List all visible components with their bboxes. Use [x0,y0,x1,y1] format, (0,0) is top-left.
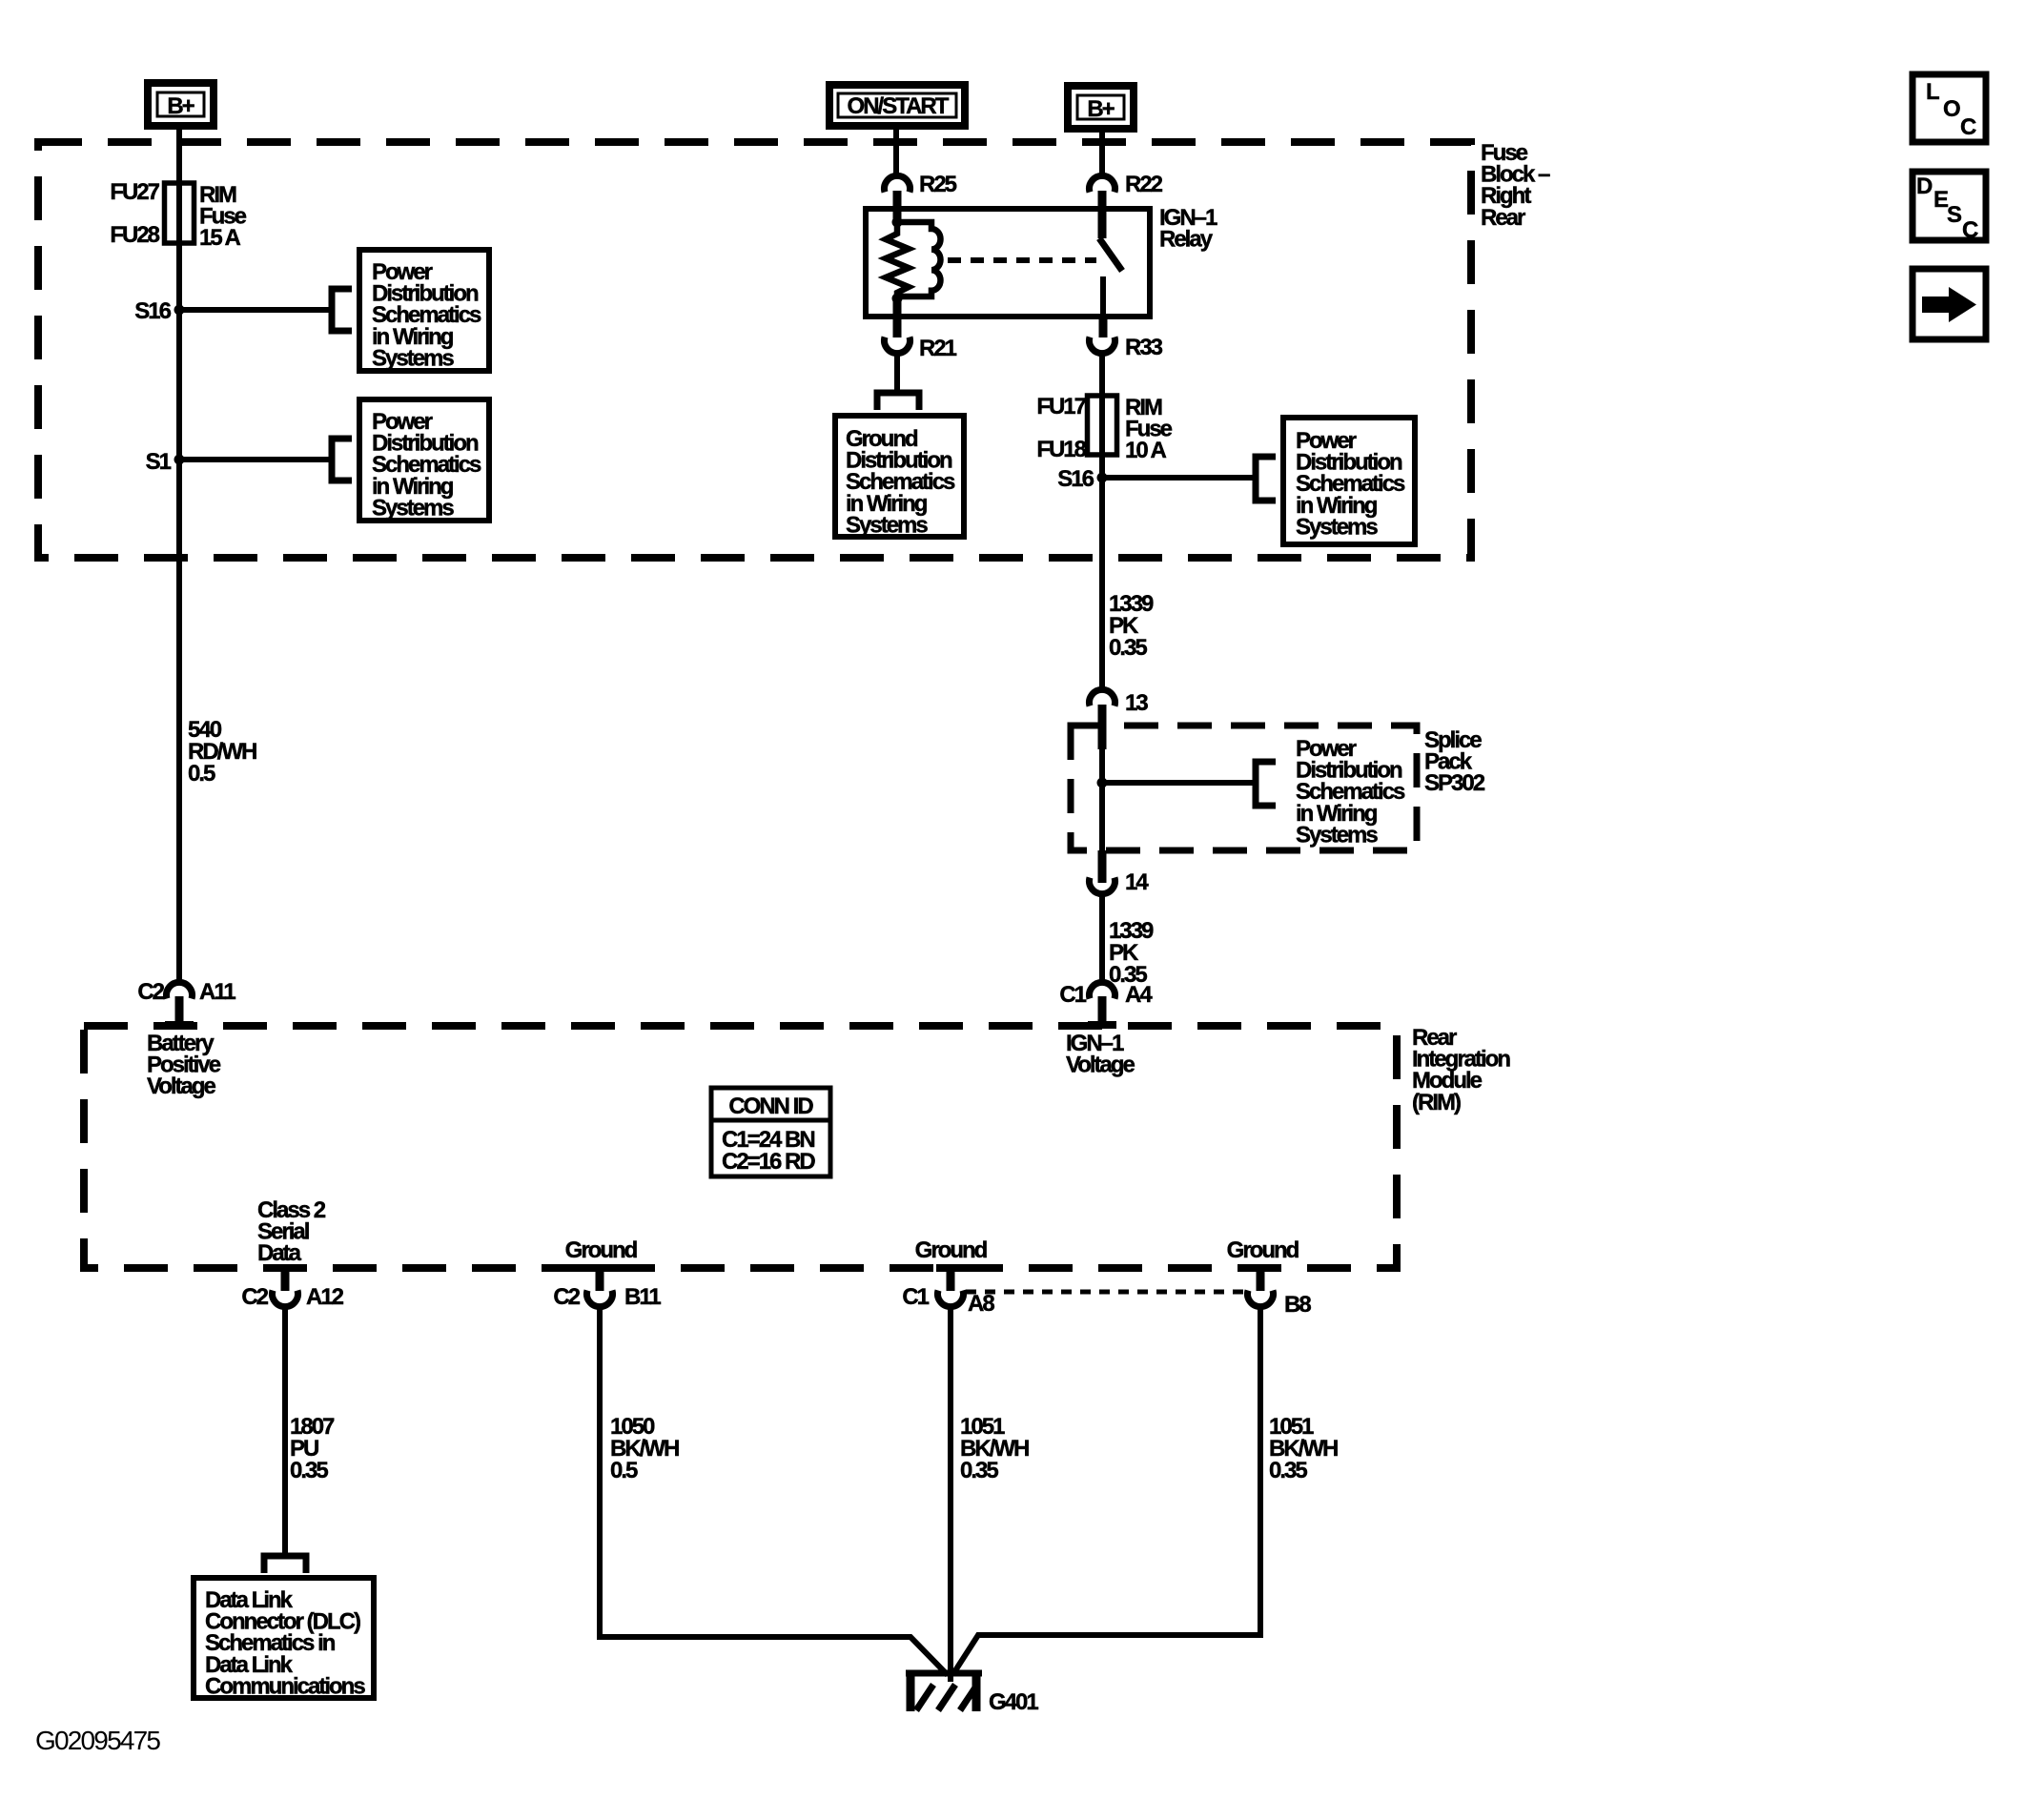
svg-text:0.5: 0.5 [188,761,215,787]
connector C2 B11 (cup) [585,1264,614,1272]
wire ON/START vertical [893,130,899,178]
svg-text:ON/START: ON/START [848,93,950,119]
fuse block Fuse Block - Right Rear (dashed enclosure) [38,142,1471,558]
svg-text:B+: B+ [1087,96,1115,122]
svg-text:0.35: 0.35 [1269,1458,1307,1483]
connector C2 A12 (cup) [271,1264,299,1272]
svg-text:10 A: 10 A [1125,438,1166,463]
svg-text:CONN ID: CONN ID [728,1094,813,1119]
wire 1807 PU 0.35 [282,1306,288,1554]
svg-text:Ground: Ground [1227,1237,1299,1263]
wire S16 right branch [1102,475,1256,481]
svg-text:O: O [1943,96,1960,122]
connector R25 (dome) [885,175,910,192]
icon LOC [1912,74,1986,142]
svg-text:13: 13 [1125,690,1148,716]
bracket to text [1256,762,1276,806]
svg-text:Ground: Ground [565,1237,638,1263]
svg-text:S16: S16 [134,298,171,324]
wire 1050 BK/WH 0.5 [600,1306,948,1675]
wire 1051 BK/WH 0.35 (B8) [952,1306,1260,1675]
svg-text:0.5: 0.5 [610,1458,638,1483]
svg-text:(RIM): (RIM) [1412,1090,1461,1115]
box Power Distribution Schematics in Wiring Systems (S16) [359,250,489,371]
svg-text:0.35: 0.35 [290,1458,328,1483]
wire fuse to 13 [1099,454,1105,691]
connector R21 (cup) [885,337,910,354]
svg-text:Systems: Systems [1296,822,1378,848]
svg-text:Systems: Systems [1296,514,1378,540]
svg-text:Ground: Ground [915,1237,988,1263]
CONN ID table [711,1088,830,1176]
svg-text:FU27: FU27 [110,179,159,205]
connector R33 (cup) [1090,337,1115,354]
ground G401 [906,1670,982,1677]
connector R22 (dome) [1090,175,1115,192]
splice pack SP302 (dashed enclosure) [1071,726,1417,850]
relay IGN-1 box [866,209,1150,317]
fuse FU17/FU18 RIM Fuse 10 A [1088,396,1117,455]
icon DESC [1912,172,1986,240]
box Power Distribution Schematics in Wiring Systems (right) [1283,418,1415,544]
connector B8 (cup) [1246,1264,1275,1272]
svg-text:C1: C1 [902,1284,929,1310]
svg-text:14: 14 [1125,869,1149,895]
svg-text:G02095475: G02095475 [35,1726,160,1755]
wire into splice [1099,749,1105,852]
svg-text:D: D [1916,174,1933,199]
bracket to box [332,289,352,331]
terminal B+ (right) [1068,86,1134,129]
svg-text:FU18: FU18 [1036,437,1086,462]
fuse FU27/FU28 RIM Fuse 15 A [165,183,194,243]
terminal B+ (left) [148,83,214,126]
svg-text:C2: C2 [137,979,164,1005]
svg-text:Voltage: Voltage [147,1074,216,1099]
svg-text:Data: Data [257,1240,302,1266]
connector 13 (dome) [1090,689,1115,706]
bracket to DLC box [264,1556,306,1573]
svg-text:Communications: Communications [205,1673,365,1699]
svg-text:Systems: Systems [372,345,454,371]
bracket to box [332,439,352,481]
svg-text:S1: S1 [146,449,172,475]
svg-text:Relay: Relay [1159,227,1214,253]
svg-text:SP302: SP302 [1424,770,1485,796]
svg-text:Rear: Rear [1481,205,1525,231]
svg-text:C: C [1962,217,1978,243]
svg-text:0.35: 0.35 [960,1458,998,1483]
svg-text:C1: C1 [1059,982,1086,1008]
svg-text:R22: R22 [1125,172,1163,197]
terminal ON/START [829,85,965,126]
coil winding (right bumps) [897,222,941,297]
svg-text:C2=16 RD: C2=16 RD [722,1149,815,1175]
svg-text:C: C [1960,114,1976,140]
bracket to box [1256,457,1276,501]
wire splice branch [1102,780,1256,786]
svg-text:B11: B11 [624,1284,661,1310]
box Power Distribution Schematics in Wiring Systems (S1) [359,399,489,521]
connector C2 A11 (dome) [167,982,193,998]
wire S16 branch [179,307,330,313]
box Data Link Connector (DLC) [194,1578,374,1698]
svg-text:FU28: FU28 [110,222,159,248]
connector C1 A4 (dome) [1090,982,1115,998]
svg-text:A8: A8 [968,1291,994,1317]
pin through relay box bottom [893,301,902,337]
node S16 [174,305,185,316]
wire S1 branch [179,457,330,462]
connector 14 (cup) [1098,850,1107,883]
wire R33 to fuse [1099,353,1105,399]
svg-text:S16: S16 [1057,466,1094,492]
svg-text:B8: B8 [1284,1292,1311,1318]
svg-text:FU17: FU17 [1036,394,1086,419]
svg-text:R25: R25 [919,172,957,197]
node S16 (right) [1097,473,1108,483]
svg-text:0.35: 0.35 [1109,635,1147,661]
wire R21 down [894,353,900,393]
svg-text:A4: A4 [1125,982,1153,1008]
box Ground Distribution Schematics in Wiring Systems [835,416,964,537]
svg-text:Voltage: Voltage [1066,1053,1135,1078]
wire B+ right vertical [1099,133,1105,178]
svg-text:R21: R21 [919,336,957,361]
bracket to ground distribution box [877,393,919,410]
svg-text:C2: C2 [553,1284,580,1310]
wire 540 RD/WH 0.5 vertical [176,240,182,984]
wire B+ left vertical top [176,130,182,187]
svg-text:Systems: Systems [372,495,454,521]
node splice SP302 [1097,778,1108,788]
node coil bottom [892,294,903,304]
relay switch arm [1099,238,1122,271]
svg-text:15 A: 15 A [199,225,240,251]
svg-text:R33: R33 [1125,335,1163,360]
svg-text:S: S [1947,202,1962,228]
svg-text:A12: A12 [306,1284,344,1310]
svg-text:G401: G401 [989,1689,1038,1715]
svg-text:L: L [1926,79,1939,105]
module RIM Rear Integration Module (dashed enclosure) [84,1026,1397,1268]
svg-text:Systems: Systems [846,512,928,538]
wire through fuse [1099,399,1105,454]
svg-text:A11: A11 [199,979,235,1005]
icon arrow [1912,269,1986,339]
wire 1051 BK/WH 0.35 (A8) [948,1306,953,1682]
wire 14 down [1099,893,1105,984]
connector C1 A8 (cup) [936,1264,965,1272]
pin through relay bottom [1099,315,1108,337]
dotted link A8 to B8 [966,1290,1246,1295]
resistor (coil left zigzag) [886,222,909,298]
svg-text:B+: B+ [167,93,194,119]
node S1 [174,455,185,465]
node coil top [892,217,903,228]
wire through fuse [176,187,182,240]
svg-text:C2: C2 [241,1284,268,1310]
relay internal dashed link [948,257,1096,263]
